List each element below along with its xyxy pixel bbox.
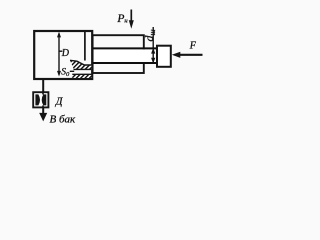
svg-text:Д: Д xyxy=(55,97,64,108)
svg-text:В бак: В бак xyxy=(50,113,77,125)
svg-text:F: F xyxy=(189,40,197,51)
svg-text:Pн: Pн xyxy=(116,13,127,25)
svg-text:D: D xyxy=(61,48,70,59)
svg-text:S0: S0 xyxy=(61,68,70,79)
